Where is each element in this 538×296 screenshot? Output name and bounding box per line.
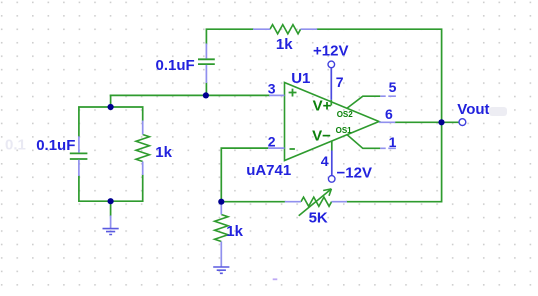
svg-text:−12V: −12V [337,165,372,182]
svg-text:1k: 1k [276,36,293,53]
svg-text:Vout: Vout [457,101,489,118]
svg-text:V−: V− [312,128,331,145]
svg-text:3: 3 [268,80,276,96]
svg-text:6: 6 [385,106,393,122]
svg-text:2: 2 [268,133,276,149]
svg-text:1k: 1k [155,144,172,161]
svg-text:uA741: uA741 [246,162,291,179]
svg-text:OS2: OS2 [337,110,354,119]
svg-text:U1: U1 [291,70,310,87]
svg-text:5K: 5K [309,209,328,226]
svg-text:0.1uF: 0.1uF [36,137,75,154]
svg-text:+12V: +12V [313,43,348,60]
svg-text:1: 1 [389,134,397,150]
svg-text:4: 4 [321,153,329,169]
svg-text:0.1: 0.1 [5,137,26,154]
svg-text:OS1: OS1 [336,126,353,135]
svg-text:5: 5 [389,79,397,95]
svg-text:7: 7 [336,74,344,90]
svg-text:0.1uF: 0.1uF [156,57,195,74]
svg-text:1k: 1k [226,223,243,240]
svg-text:V+: V+ [313,98,332,115]
